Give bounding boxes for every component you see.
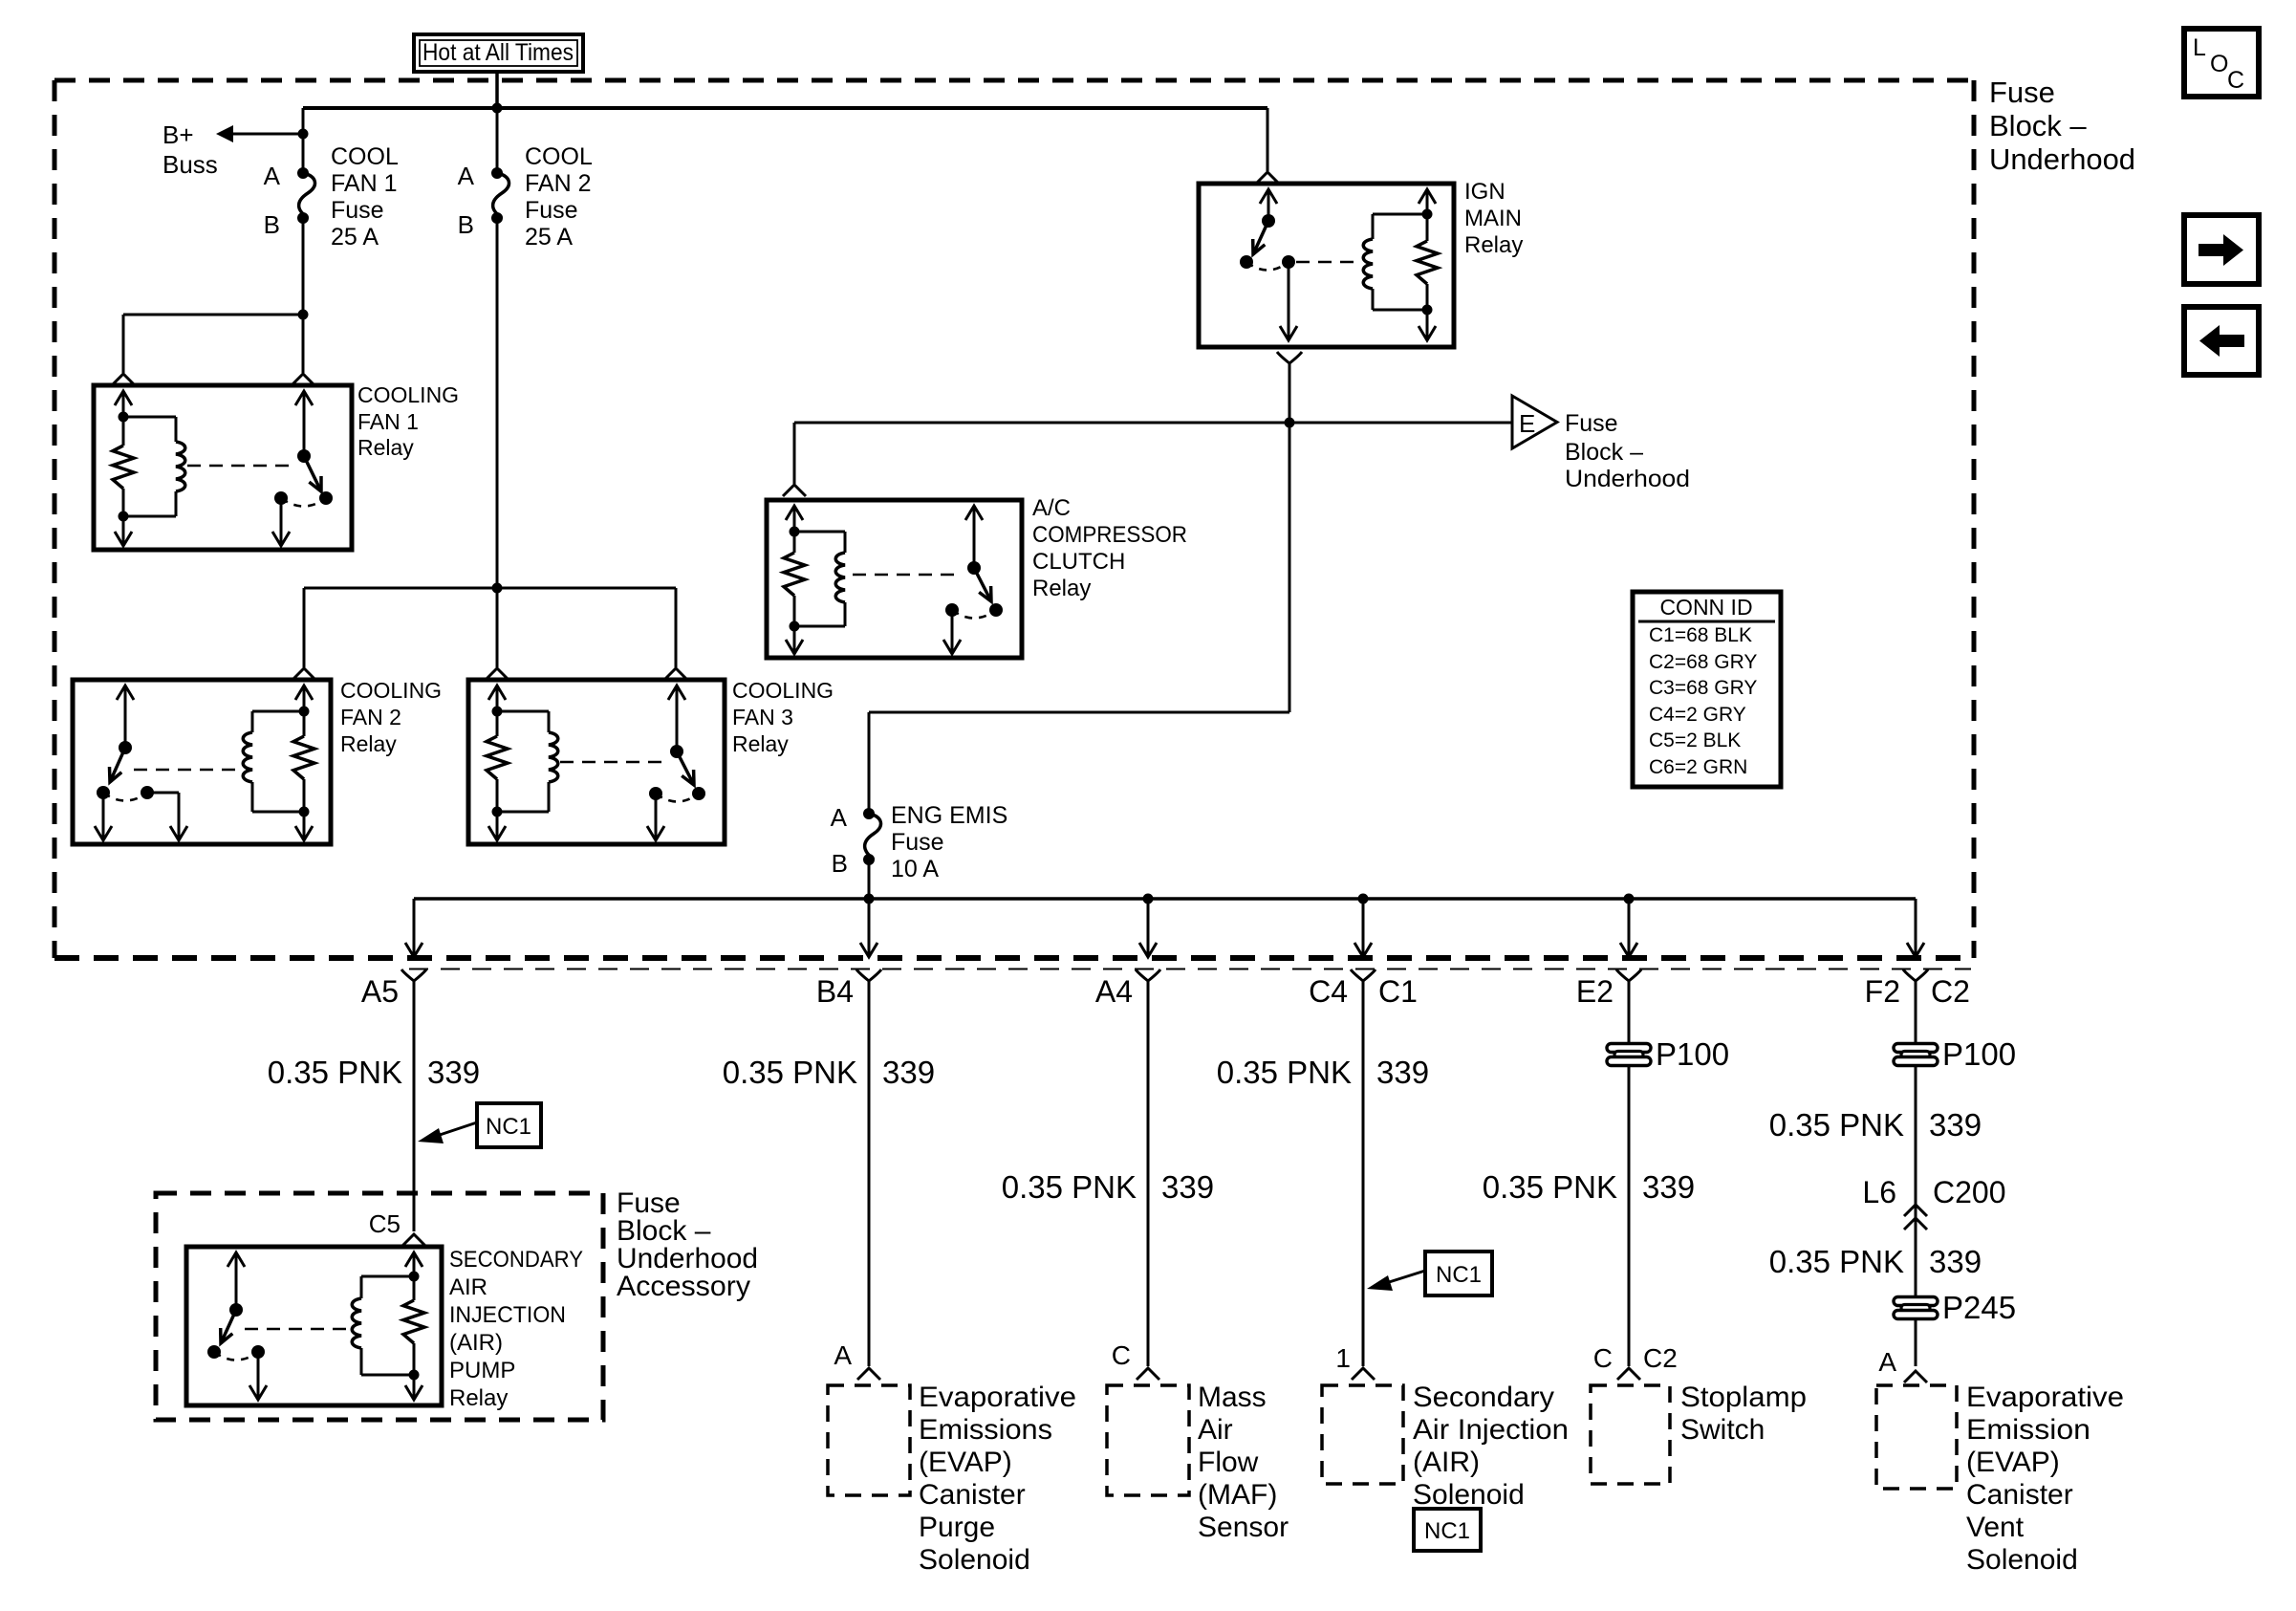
svg-text:C200: C200: [1933, 1175, 2006, 1209]
relay K2: COOLING FAN 2 Relay box: [73, 680, 331, 844]
wire: drop to relay3 switch: [675, 588, 678, 667]
fuse block underhood accessory dashed enclosure: [156, 1193, 603, 1420]
label: Mass Air Flow (MAF) Sensor: [1198, 1382, 1289, 1543]
svg-text:CONN ID: CONN ID: [1659, 595, 1752, 620]
value label: COOL FAN 2 Fuse 25 A: [525, 143, 593, 250]
note NC1 (A5): [418, 1103, 541, 1147]
svg-text:A: A: [1878, 1347, 1896, 1377]
svg-text:A: A: [264, 162, 281, 190]
pin label E2: [1576, 974, 1614, 1009]
svg-text:C1: C1: [1378, 974, 1418, 1009]
component: EVAP canister purge solenoid dashed box: [828, 1385, 910, 1495]
svg-text:Relay: Relay: [1032, 576, 1091, 601]
wire: fuse1 B down + branch to relay1: [123, 218, 303, 373]
connector chevron (stoplamp): [1617, 1368, 1640, 1380]
svg-text:C: C: [2227, 67, 2244, 94]
svg-text:COOLING: COOLING: [357, 382, 459, 407]
wire: IGN output to ENG EMIS fuse: [869, 423, 1289, 814]
svg-text:Vent: Vent: [1966, 1512, 2025, 1543]
svg-text:339: 339: [427, 1055, 480, 1090]
svg-text:FAN 3: FAN 3: [732, 705, 793, 729]
svg-text:(EVAP): (EVAP): [1966, 1447, 2060, 1478]
svg-text:0.35 PNK: 0.35 PNK: [723, 1055, 857, 1090]
svg-text:B: B: [264, 210, 280, 239]
svg-text:Flow: Flow: [1198, 1447, 1259, 1478]
legend LOC box: [2184, 29, 2259, 97]
svg-text:Fuse: Fuse: [891, 829, 944, 856]
label: Fuse Block - Underhood Accessory: [617, 1187, 758, 1302]
svg-text:FAN 1: FAN 1: [331, 170, 397, 197]
svg-text:L6: L6: [1862, 1175, 1896, 1209]
legend: CONN ID table: [1633, 592, 1781, 787]
svg-text:P100: P100: [1656, 1036, 1729, 1072]
junction: hot feed / top bus: [492, 103, 503, 114]
connector chevrons above relay2/relay3: [292, 668, 687, 680]
relay K4: IGN MAIN Relay box: [1199, 184, 1454, 347]
svg-text:E: E: [1519, 409, 1535, 438]
wire label 0.35 PNK 339 (B4): [723, 1055, 935, 1090]
svg-text:339: 339: [1161, 1169, 1214, 1205]
svg-text:Solenoid: Solenoid: [1413, 1479, 1525, 1511]
pin label A (EVAP vent): [1878, 1347, 1896, 1377]
relay K5 internals: [784, 506, 1003, 654]
label: Evaporative Emission (EVAP) Canister Vent Solenoid: [1966, 1382, 2124, 1576]
svg-text:0.35 PNK: 0.35 PNK: [268, 1055, 402, 1090]
wire: C4/C1 column drop: [1351, 899, 1375, 1366]
label: Fuse Block - Underhood (top right): [1989, 76, 2135, 176]
component: secondary AIR solenoid dashed box: [1322, 1385, 1403, 1484]
junction: relay 2/3 tee: [492, 583, 503, 594]
svg-text:Fuse: Fuse: [1989, 76, 2055, 109]
svg-text:Relay: Relay: [1464, 232, 1523, 258]
svg-text:Relay: Relay: [340, 731, 397, 756]
svg-text:Evaporative: Evaporative: [919, 1382, 1076, 1413]
svg-text:Buss: Buss: [162, 150, 218, 179]
fuse block underhood dashed enclosure: [54, 80, 1974, 958]
svg-text:Underhood: Underhood: [1989, 142, 2135, 176]
connector chevron C5: [402, 1234, 425, 1246]
pin A label (COOL FAN 1 fuse): [264, 162, 281, 190]
svg-text:Fuse: Fuse: [331, 197, 384, 224]
relay K2 internals: [95, 686, 314, 840]
svg-text:NC1: NC1: [1436, 1262, 1482, 1288]
svg-text:339: 339: [882, 1055, 935, 1090]
label: Fuse Block - Underhood (E): [1565, 410, 1690, 492]
svg-text:25 A: 25 A: [331, 224, 379, 250]
wire: top bus: [303, 106, 1267, 110]
wire label 0.35 PNK 339 (F2 upper): [1769, 1107, 1982, 1143]
relay K3: COOLING FAN 3 Relay box: [468, 680, 725, 844]
svg-text:C5=2 BLK: C5=2 BLK: [1649, 729, 1741, 751]
svg-text:L: L: [2193, 34, 2206, 61]
svg-text:NC1: NC1: [1424, 1518, 1470, 1544]
label: SECONDARY AIR INJECTION (AIR) PUMP Relay: [449, 1247, 583, 1411]
wire: A4 column drop: [1136, 899, 1160, 1366]
wire: E2 column drop: [1616, 899, 1641, 1366]
label: IGN MAIN Relay: [1464, 179, 1523, 258]
svg-text:B: B: [832, 849, 848, 878]
splice P100 (E2): [1607, 1036, 1729, 1072]
svg-text:Underhood: Underhood: [1565, 466, 1690, 492]
svg-text:FAN 2: FAN 2: [340, 705, 401, 729]
svg-text:(MAF): (MAF): [1198, 1479, 1277, 1511]
connector chevrons above relay1: [112, 374, 314, 385]
svg-text:ENG EMIS: ENG EMIS: [891, 802, 1007, 829]
svg-text:0.35 PNK: 0.35 PNK: [1483, 1169, 1617, 1205]
svg-text:Switch: Switch: [1680, 1414, 1765, 1446]
fuse: ENG EMIS 10A: [863, 808, 880, 865]
svg-text:COOLING: COOLING: [340, 678, 442, 703]
connector C200 double chevron: [1904, 1205, 1927, 1230]
svg-text:Block –: Block –: [1565, 439, 1643, 466]
svg-text:FAN 2: FAN 2: [525, 170, 591, 197]
component: MAF sensor dashed box: [1107, 1385, 1189, 1495]
svg-text:P100: P100: [1942, 1036, 2016, 1072]
connector chevron below IGN relay: [1277, 352, 1302, 363]
svg-text:0.35 PNK: 0.35 PNK: [1769, 1107, 1904, 1143]
svg-text:Mass: Mass: [1198, 1382, 1267, 1413]
svg-text:(AIR): (AIR): [1413, 1447, 1480, 1478]
svg-text:COOL: COOL: [331, 143, 399, 170]
note NC1 (below AIR solenoid): [1414, 1509, 1481, 1551]
wire label 0.35 PNK 339 (A5): [268, 1055, 480, 1090]
svg-text:Purge: Purge: [919, 1512, 995, 1543]
svg-text:IGN: IGN: [1464, 179, 1505, 205]
connector face dashed line: [409, 969, 1971, 970]
svg-text:C3=68 GRY: C3=68 GRY: [1649, 677, 1757, 699]
note NC1 (C1): [1367, 1252, 1492, 1295]
svg-text:Solenoid: Solenoid: [919, 1544, 1030, 1576]
pin A label (COOL FAN 2 fuse): [458, 162, 475, 190]
junction: IGN output tee: [1285, 418, 1295, 428]
wire: A5 column drop: [401, 899, 426, 1231]
label: COOLING FAN 2 Relay: [340, 678, 442, 756]
svg-text:INJECTION: INJECTION: [449, 1302, 566, 1328]
wire: F2 column drop: [1903, 899, 1928, 1366]
svg-text:Relay: Relay: [449, 1385, 508, 1411]
svg-text:Stoplamp: Stoplamp: [1680, 1382, 1807, 1413]
wire: IGN output down: [1289, 363, 1291, 423]
svg-text:1: 1: [1335, 1343, 1351, 1373]
svg-text:(AIR): (AIR): [449, 1330, 503, 1356]
connector chevron above A/C relay: [783, 485, 806, 496]
relay K6: SECONDARY AIR INJECTION (AIR) PUMP Relay box: [186, 1247, 442, 1405]
svg-text:Secondary: Secondary: [1413, 1382, 1554, 1413]
svg-text:Emissions: Emissions: [919, 1414, 1052, 1446]
pin label C5: [369, 1209, 401, 1238]
pin A label (ENG EMIS fuse): [831, 803, 848, 832]
svg-text:Relay: Relay: [732, 731, 789, 756]
label: COOLING FAN 3 Relay: [732, 678, 834, 756]
svg-text:25 A: 25 A: [525, 224, 573, 250]
svg-text:339: 339: [1376, 1055, 1429, 1090]
connector chevron (EVAP purge): [857, 1368, 880, 1380]
svg-text:AIR: AIR: [449, 1274, 487, 1300]
wire label 0.35 PNK 339 (A4): [1002, 1169, 1214, 1205]
svg-text:C4=2 GRY: C4=2 GRY: [1649, 704, 1746, 726]
connector chevron (AIR solenoid): [1352, 1368, 1375, 1380]
svg-text:A: A: [458, 162, 475, 190]
component: stoplamp switch dashed box: [1591, 1385, 1670, 1484]
legend arrow right box: [2184, 215, 2259, 284]
wire: top bus drop to IGN relay: [1267, 108, 1269, 171]
legend arrow left box: [2184, 307, 2259, 375]
svg-text:339: 339: [1929, 1107, 1982, 1143]
splice P245: [1894, 1290, 2016, 1325]
svg-text:Accessory: Accessory: [617, 1271, 750, 1302]
pin B label (COOL FAN 2 fuse): [458, 210, 474, 239]
wire: fuse B to bottom bus: [868, 860, 871, 899]
svg-text:10 A: 10 A: [891, 856, 939, 882]
svg-text:COMPRESSOR: COMPRESSOR: [1032, 522, 1187, 548]
fuse: COOL FAN 2 25A: [491, 167, 509, 224]
svg-text:Block –: Block –: [1989, 109, 2087, 142]
label: A/C COMPRESSOR CLUTCH Relay: [1032, 495, 1187, 601]
svg-text:MAIN: MAIN: [1464, 206, 1522, 231]
label: COOLING FAN 1 Relay: [357, 382, 459, 460]
pin labels C / C2 (stoplamp): [1593, 1343, 1678, 1373]
svg-text:B: B: [458, 210, 474, 239]
component: EVAP canister vent solenoid dashed box: [1876, 1385, 1957, 1489]
relay K4 internals: [1240, 189, 1438, 340]
svg-text:Solenoid: Solenoid: [1966, 1544, 2078, 1576]
wire: drop to A/C relay: [793, 423, 796, 484]
svg-text:E2: E2: [1576, 974, 1614, 1009]
svg-text:Canister: Canister: [919, 1479, 1026, 1511]
wire label 0.35 PNK 339 (E2): [1483, 1169, 1695, 1205]
svg-text:Relay: Relay: [357, 435, 414, 460]
connector chevron above IGN relay: [1256, 172, 1279, 184]
label: Stoplamp Switch: [1680, 1382, 1807, 1446]
svg-text:COOL: COOL: [525, 143, 593, 170]
wire label 0.35 PNK 339 (C1): [1217, 1055, 1429, 1090]
svg-text:339: 339: [1929, 1244, 1982, 1279]
svg-text:Air: Air: [1198, 1414, 1233, 1446]
svg-text:Evaporative: Evaporative: [1966, 1382, 2124, 1413]
pin labels L6 / C200: [1862, 1175, 2005, 1209]
B+ Buss feed arrow: [162, 120, 303, 179]
pin label B4: [816, 974, 854, 1009]
off-page connector E: [1512, 396, 1557, 448]
svg-text:C2: C2: [1931, 974, 1970, 1009]
svg-text:PUMP: PUMP: [449, 1358, 515, 1383]
svg-text:C4: C4: [1309, 974, 1348, 1009]
wire: switched feed bus: [794, 422, 1512, 425]
svg-text:C: C: [1112, 1340, 1131, 1370]
svg-text:339: 339: [1642, 1169, 1695, 1205]
relay K6 internals: [207, 1252, 424, 1400]
pin label A (EVAP purge): [834, 1340, 852, 1370]
connector chevron (EVAP vent): [1904, 1371, 1927, 1382]
svg-text:A/C: A/C: [1032, 495, 1071, 521]
connector chevron (MAF): [1137, 1368, 1159, 1380]
fuse: COOL FAN 1 25A: [297, 167, 314, 224]
svg-text:A: A: [831, 803, 848, 832]
svg-text:B+: B+: [162, 120, 194, 149]
svg-text:C6=2 GRN: C6=2 GRN: [1649, 756, 1747, 778]
pin label C (MAF): [1112, 1340, 1131, 1370]
svg-text:FAN 1: FAN 1: [357, 409, 419, 434]
pin labels F2 / C2: [1865, 974, 1970, 1009]
svg-text:A: A: [834, 1340, 852, 1370]
wire: B4 column drop: [856, 899, 881, 1366]
svg-text:C5: C5: [369, 1209, 401, 1238]
svg-text:A5: A5: [361, 974, 399, 1009]
wire: fuse1 drop to B+ node: [302, 108, 305, 173]
svg-text:Hot at All Times: Hot at All Times: [422, 39, 574, 66]
wire: fuse2 drop: [496, 108, 499, 173]
pin label A4: [1095, 974, 1133, 1009]
svg-text:Emission: Emission: [1966, 1414, 2090, 1446]
svg-text:CLUTCH: CLUTCH: [1032, 549, 1125, 575]
svg-text:F2: F2: [1865, 974, 1900, 1009]
svg-text:(EVAP): (EVAP): [919, 1447, 1012, 1478]
power label: Hot at All Times: [414, 34, 583, 72]
junction dots on bottom bus: [864, 894, 1635, 904]
svg-text:Fuse: Fuse: [1565, 410, 1618, 437]
svg-text:Air Injection: Air Injection: [1413, 1414, 1569, 1446]
pin label 1 (AIR solenoid): [1335, 1343, 1351, 1373]
wire: tee horizontal: [304, 587, 676, 590]
svg-text:A4: A4: [1095, 974, 1133, 1009]
svg-text:O: O: [2210, 51, 2228, 77]
svg-text:P245: P245: [1942, 1290, 2016, 1325]
svg-text:C: C: [1593, 1343, 1613, 1373]
wire: bottom distribution bus: [414, 897, 1916, 901]
wire: drop to relay2: [303, 588, 306, 667]
svg-text:COOLING: COOLING: [732, 678, 834, 703]
relay K5: A/C COMPRESSOR CLUTCH Relay box: [767, 500, 1022, 658]
pin B label (ENG EMIS fuse): [832, 849, 848, 878]
svg-text:SECONDARY: SECONDARY: [449, 1247, 583, 1273]
svg-text:Canister: Canister: [1966, 1479, 2073, 1511]
svg-text:0.35 PNK: 0.35 PNK: [1217, 1055, 1352, 1090]
label: Evaporative Emissions (EVAP) Canister Purge Solenoid: [919, 1382, 1076, 1576]
svg-text:0.35 PNK: 0.35 PNK: [1769, 1244, 1904, 1279]
junction: relay1 branch: [298, 310, 309, 320]
junction: B+ tap: [298, 129, 309, 140]
wire: hot feed drop: [495, 72, 499, 108]
wire label 0.35 PNK 339 (F2 lower): [1769, 1244, 1982, 1279]
svg-text:C2=68 GRY: C2=68 GRY: [1649, 651, 1757, 673]
svg-text:NC1: NC1: [486, 1114, 531, 1140]
wire: fuse2 B down to relay2/3 tee: [496, 218, 499, 667]
value label: ENG EMIS Fuse 10 A: [891, 802, 1007, 882]
svg-text:Sensor: Sensor: [1198, 1512, 1289, 1543]
pin B label (COOL FAN 1 fuse): [264, 210, 280, 239]
value label: COOL FAN 1 Fuse 25 A: [331, 143, 399, 250]
relay K3 internals: [487, 686, 705, 840]
svg-text:Fuse: Fuse: [525, 197, 578, 224]
svg-text:C1=68 BLK: C1=68 BLK: [1649, 624, 1752, 646]
label: Secondary Air Injection (AIR) Solenoid: [1413, 1382, 1569, 1511]
svg-text:C2: C2: [1643, 1343, 1678, 1373]
svg-text:B4: B4: [816, 974, 854, 1009]
relay K1: COOLING FAN 1 Relay box: [94, 385, 352, 550]
pin label A5: [361, 974, 399, 1009]
splice P100 (F2): [1894, 1036, 2016, 1072]
relay K1 internals: coil+resistor+switch: [113, 391, 333, 546]
pin labels C4 / C1: [1309, 974, 1418, 1009]
svg-text:0.35 PNK: 0.35 PNK: [1002, 1169, 1137, 1205]
